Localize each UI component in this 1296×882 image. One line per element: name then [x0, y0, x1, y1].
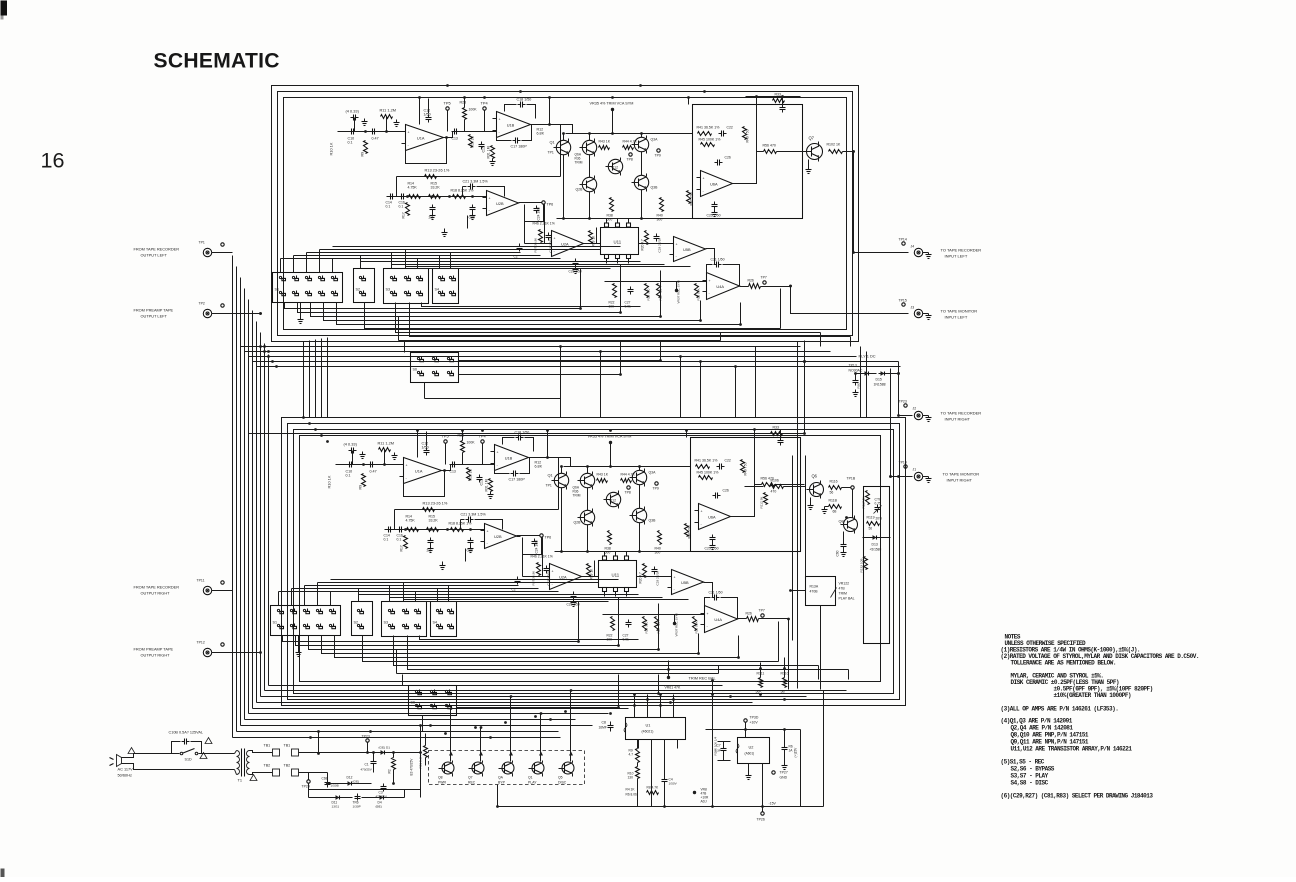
connector TB1 transformer side	[273, 749, 280, 756]
svg-text:(BE): (BE)	[376, 805, 382, 809]
transistor Q12 VCA center (R)	[606, 492, 620, 506]
svg-text:R17: R17	[400, 545, 404, 551]
op-amp U2A expander amp 2 (L)	[552, 231, 584, 257]
svg-text:R49 750: R49 750	[744, 462, 748, 475]
contacts of S4 (L)	[438, 276, 440, 278]
contacts of S2 (R)	[357, 609, 359, 611]
wire middle frame of left-channel block	[278, 92, 853, 336]
dashed enclosure of indicator lamps	[429, 751, 585, 785]
contacts of S1 top row (R)	[277, 609, 279, 611]
wire U6A output route (R)	[731, 485, 762, 517]
svg-text:R25 56K: R25 56K	[697, 287, 701, 300]
resistor R17 56K to ground (R)	[404, 536, 408, 549]
ground at jack 1	[923, 252, 929, 254]
svg-text:TP7: TP7	[759, 609, 765, 613]
svg-text:S6: S6	[411, 701, 415, 705]
svg-text:R41 36.5K 1%: R41 36.5K 1%	[697, 126, 721, 130]
svg-text:(A601): (A601)	[745, 752, 755, 756]
svg-text:33.2K: 33.2K	[429, 519, 439, 523]
junction dots on bus	[259, 312, 262, 315]
svg-text:R102 1K: R102 1K	[827, 143, 841, 147]
capacitor C7 3.3P	[723, 746, 725, 749]
svg-text:R26: R26	[746, 612, 752, 616]
svg-text:(+)15V: (+)15V	[794, 747, 798, 758]
capacitor C19 2.2/50 to ground (L)	[432, 205, 434, 208]
svg-text:TP2: TP2	[199, 302, 205, 306]
test point TP30 +10V	[744, 719, 747, 722]
svg-text:C7: C7	[717, 744, 721, 748]
capacitor C14 0.1 (L)	[388, 196, 391, 198]
svg-text:6B: 6B	[833, 510, 837, 514]
svg-text:U5B: U5B	[683, 247, 691, 252]
resistor R24 430 vertical (L)	[657, 284, 661, 298]
wire U1B output rail (L)	[531, 124, 561, 126]
switch bank S6 (L)	[411, 353, 459, 383]
svg-text:56: 56	[869, 527, 873, 531]
resistor R20 4.7 vertical (L)	[645, 231, 649, 245]
svg-text:TO TAPE RECORDER: TO TAPE RECORDER	[941, 411, 982, 416]
wire lamp Q7 feed	[480, 749, 482, 762]
svg-text:(GE) D1: (GE) D1	[379, 746, 391, 750]
svg-text:S1: S1	[273, 621, 277, 625]
capacitor C25 1/50 to ground (R)	[712, 535, 714, 538]
svg-text:(4)Q1,Q3 ARE P/N 142091: (4)Q1,Q3 ARE P/N 142091	[1001, 718, 1073, 725]
svg-text:FROM PREAMP TAPE: FROM PREAMP TAPE	[134, 308, 174, 313]
diode D16 in relay branch	[863, 373, 871, 375]
diode at lamp QA	[509, 752, 513, 756]
capacitor C2 1/50 lower (R)	[517, 577, 519, 580]
capacitor C23 3.3/50 vertical (L)	[548, 233, 550, 236]
transistor Q2B VCA (L)	[582, 177, 596, 191]
junction dot U1A output (R)	[443, 469, 446, 472]
input terminal FROM TAPE RECORDER OUTPUT RIGHT	[203, 586, 211, 594]
op-amp U4A output amp (L)	[707, 273, 740, 300]
switch bank S2 (R)	[352, 602, 373, 636]
transistor-array U11 (L)	[601, 228, 639, 255]
capacitor C22 33P (L)	[719, 133, 722, 135]
ground at Q7 emitter	[808, 160, 810, 167]
resistor R112 vertical near Q6	[764, 493, 768, 505]
svg-text:R28: R28	[458, 434, 465, 438]
resistor R9 1M vertical (R)	[362, 474, 366, 487]
op-amp U1A input amplifier (R)	[404, 458, 442, 484]
test point TP23	[366, 739, 369, 742]
power switch S1D	[172, 753, 180, 755]
capacitor C22 33P (R)	[717, 466, 720, 468]
svg-text:VR37 REC SYM: VR37 REC SYM	[675, 613, 679, 636]
svg-text:-15V: -15V	[769, 802, 777, 806]
svg-text:1/30P: 1/30P	[353, 805, 361, 809]
switch bank S3 (R)	[382, 602, 427, 637]
capacitor C23 3.3/50 vertical (R)	[546, 566, 548, 569]
svg-text:+: +	[489, 196, 491, 200]
svg-text:U2A: U2A	[559, 575, 567, 580]
junction dot lamp Q5	[570, 689, 573, 692]
svg-text:D15: D15	[876, 378, 882, 382]
wire U5B output drop (R)	[704, 583, 713, 598]
jack terminal TO TAPE MONITOR INPUT RIGHT	[914, 472, 922, 480]
svg-text:R13 23-26 1%: R13 23-26 1%	[425, 168, 450, 173]
svg-text:TP11: TP11	[197, 579, 205, 583]
wire VCA verticals (R)	[561, 467, 563, 474]
wire Q6 collector feed	[745, 486, 764, 488]
svg-text:RLY 1 DC: RLY 1 DC	[859, 354, 876, 359]
svg-text:U2: U2	[749, 745, 754, 750]
test point TP8 (R)	[627, 486, 630, 489]
svg-text:BYP: BYP	[498, 781, 506, 785]
svg-text:Q8: Q8	[438, 776, 443, 780]
wire outer frame of left-channel block	[272, 86, 859, 342]
wire relay branch down	[898, 362, 900, 412]
wire monitor feed left	[791, 287, 909, 314]
svg-text:U2B: U2B	[496, 201, 504, 206]
contacts of S3 (R)	[388, 609, 390, 611]
svg-text:SCHEMATIC: SCHEMATIC	[154, 50, 280, 73]
test point TP4 (R)	[481, 440, 484, 443]
diode D11 13G1 lower	[334, 797, 342, 799]
resistor R22 100 vertical (L)	[613, 284, 617, 298]
capacitor C10 0.47 (L)	[349, 131, 352, 133]
svg-text:R9: R9	[361, 152, 365, 157]
op-amp U5B line amp (L)	[674, 237, 706, 262]
capacitor C10 0.47 (R)	[347, 464, 350, 466]
resistor R42 200 vertical (R)	[685, 524, 689, 537]
capacitor C29 22/16 vertical (R)	[654, 567, 656, 570]
trim VR37 REC CAL SYM (R)	[673, 622, 676, 625]
svg-text:C24 1/50: C24 1/50	[535, 540, 539, 553]
wire -15V rail bottom	[498, 806, 824, 808]
resistor R38 600 (R)	[608, 531, 612, 545]
resistor R43 1K base (R)	[597, 479, 608, 483]
resistor R40 300 (L)	[660, 198, 664, 212]
wire U4A output (L)	[740, 286, 749, 288]
wire switch matrix horizontal links (L)	[281, 258, 561, 260]
svg-text:Q3B: Q3B	[649, 519, 657, 523]
svg-text:FROM TAPE RECORDER: FROM TAPE RECORDER	[134, 585, 180, 590]
resistor R16 vertical divider (R)	[467, 468, 471, 481]
capacitor C2 1/50 lower (L)	[519, 244, 521, 247]
svg-text:0.1: 0.1	[348, 141, 353, 145]
wire expander row1 rail (L)	[387, 196, 487, 198]
svg-text:300: 300	[655, 551, 661, 555]
capacitor C28 1/50 below (R)	[573, 592, 575, 595]
resistor R18 8.25K 1% (R)	[451, 528, 464, 532]
wire right riser x823	[823, 691, 825, 807]
svg-text:C17 180P: C17 180P	[511, 145, 528, 149]
svg-text:S2,S6 - BYPASS: S2,S6 - BYPASS	[1011, 766, 1055, 773]
pins of U1 top	[634, 706, 636, 718]
transistor Q3B VCA (L)	[634, 175, 648, 189]
svg-text:R49 750: R49 750	[746, 129, 750, 142]
svg-text:U5B: U5B	[681, 580, 689, 585]
capacitor C4 1/50V	[664, 777, 666, 780]
ground at C9 (R)	[362, 452, 364, 455]
node small TP circle at jack 1	[902, 242, 905, 245]
junction dot lamp Q1	[540, 712, 543, 715]
transistor Q3 VCA (R)	[632, 470, 646, 484]
resistor R22 100 vertical (R)	[611, 617, 615, 631]
svg-text:OUTPUT LEFT: OUTPUT LEFT	[141, 253, 168, 258]
transformer T1 core	[241, 749, 243, 777]
resistor R41 36.5K 1% (R)	[696, 465, 710, 469]
svg-text:C29 22/16: C29 22/16	[656, 571, 660, 586]
switch bank S3 (L)	[384, 269, 429, 304]
svg-text:TB2: TB2	[264, 764, 271, 768]
svg-text:0.1: 0.1	[384, 538, 389, 542]
wire row3 rail (L)	[605, 281, 707, 283]
warning triangle at T1	[250, 775, 257, 781]
transistor Q6 output follower right	[810, 483, 824, 497]
wire TB1 rail	[299, 752, 421, 754]
jack terminal TO TAPE RECORDER INPUT RIGHT	[914, 411, 922, 419]
wire row2 feed from TP6 (R)	[523, 538, 542, 577]
test point TP9 (R)	[655, 482, 658, 485]
wire row2 feed from TP6 (L)	[525, 205, 544, 244]
svg-text:C17 180P: C17 180P	[509, 478, 526, 482]
capacitor C16 0.1 (R)	[397, 529, 400, 531]
resistor R19 1K vertical (R)	[587, 564, 591, 577]
diode at lamp Q7	[479, 752, 483, 756]
svg-text:Q2B: Q2B	[576, 188, 584, 192]
wire VCA verticals (L)	[563, 134, 565, 141]
capacitor C24 1/50 at TP6 (R)	[534, 539, 536, 542]
wire resistor drops to bus	[760, 669, 762, 678]
svg-text:+: +	[487, 529, 489, 533]
switch bank S2 (L)	[354, 269, 375, 303]
wire feed rail y433 to relay riser	[249, 433, 805, 435]
transistor Q2B VCA (R)	[580, 510, 594, 524]
diode D1 13G1	[379, 752, 387, 754]
svg-text:R46 2.21K 1%: R46 2.21K 1%	[531, 555, 553, 559]
svg-text:VR122: VR122	[839, 582, 850, 586]
svg-text:+: +	[674, 575, 676, 579]
wire rectifier bottom rail	[308, 784, 310, 790]
svg-text:Q9,Q11 ARE NPN,P/N 147151: Q9,Q11 ARE NPN,P/N 147151	[1011, 739, 1089, 746]
capacitor C17 180P feedback (R)	[495, 463, 510, 474]
wire TB2 rail	[299, 772, 309, 774]
svg-text:C29 22/16: C29 22/16	[658, 238, 662, 253]
op-amp U1A input amplifier (L)	[406, 125, 444, 151]
ground at jack 3	[923, 415, 929, 417]
svg-text:R9: R9	[359, 485, 363, 490]
indicator transistor Q5 DISC	[562, 762, 574, 774]
resistor R47 30.9K vertical (L)	[539, 230, 543, 243]
svg-text:TP1: TP1	[199, 241, 205, 245]
svg-text:R11 1.2M: R11 1.2M	[378, 441, 395, 446]
resistor R28 100K vertical (L)	[463, 108, 467, 120]
pins of U11 bottom (L)	[605, 255, 609, 259]
svg-text:TB1: TB1	[264, 744, 271, 748]
svg-text:C15: C15	[480, 479, 484, 485]
capacitor C9 input bypass (R)	[349, 450, 352, 452]
wire mains leads	[122, 754, 172, 758]
svg-text:TP1: TP1	[546, 484, 552, 488]
wire trim feeds from bus to R111 R110	[668, 661, 670, 670]
ground below C20 (L)	[472, 213, 474, 216]
svg-text:470: 470	[771, 490, 777, 494]
wire secondary to TB1	[250, 751, 273, 753]
wire trim riser	[712, 681, 714, 807]
svg-text:TRIM: TRIM	[839, 592, 848, 596]
svg-text:R112 3K: R112 3K	[760, 496, 764, 509]
capacitor C11 0.47 (R)	[368, 464, 371, 466]
svg-text:+: +	[499, 118, 501, 122]
fuse F1	[172, 742, 181, 754]
svg-text:NO30AC: NO30AC	[849, 369, 863, 373]
capacitor C26 coupling (R)	[713, 495, 716, 497]
svg-text:R23 300: R23 300	[645, 621, 649, 633]
svg-text:20%: 20%	[876, 517, 883, 521]
wire R13 feedback rail (L)	[397, 176, 561, 178]
wire control box around U6A (L)	[693, 105, 803, 219]
resistor R43 1K base (L)	[599, 146, 610, 150]
capacitor C8 16MF	[610, 722, 612, 726]
wire into jack 4	[891, 476, 913, 478]
resistor R23 300 vertical (R)	[643, 617, 647, 631]
resistor R15 33.2K 1% (L)	[429, 195, 441, 199]
svg-text:(GE): (GE)	[353, 780, 360, 784]
junction dots VCA rails (L)	[562, 132, 565, 135]
test point TP6 (L)	[542, 201, 545, 204]
indicator transistor Q8 PWR	[442, 762, 454, 774]
resistor R116 at Q6 output	[829, 486, 842, 490]
svg-text:TB1: TB1	[284, 744, 291, 748]
svg-text:+: +	[406, 464, 408, 468]
svg-text:+: +	[703, 177, 705, 181]
junction dot lamp Q7	[480, 726, 483, 729]
svg-text:U1B: U1B	[505, 456, 513, 461]
diode D12 (GE)	[346, 783, 354, 785]
mains plug	[117, 755, 122, 767]
junction dot at jack4 riser	[889, 475, 892, 478]
warning triangle at fuse	[205, 738, 212, 744]
ground below C56	[784, 763, 786, 766]
svg-text:C26: C26	[725, 156, 731, 160]
resistor R20 4.7 vertical (R)	[643, 564, 647, 578]
wire lamp Q1 feed	[540, 749, 542, 762]
capacitor C25 1/50 to ground (L)	[714, 202, 716, 205]
switch bank S6 (R)	[409, 686, 457, 716]
capacitor C13 coupling (R)	[450, 464, 453, 466]
trim VR37 REC CAL SYM (L)	[675, 289, 678, 292]
svg-text:0.1: 0.1	[346, 474, 351, 478]
wire U4A output (R)	[738, 618, 747, 620]
svg-text:Q7: Q7	[809, 136, 815, 141]
svg-text:R45 100K 1%: R45 100K 1%	[697, 471, 720, 475]
svg-text:47B: 47B	[839, 587, 846, 591]
svg-text:C1: C1	[365, 763, 369, 767]
svg-text:R46 2.21K 1%: R46 2.21K 1%	[533, 222, 555, 226]
wire from play-bal box down	[820, 606, 822, 641]
svg-text:U1A: U1A	[415, 469, 423, 474]
wire VCA top rail (L)	[566, 133, 693, 135]
svg-text:1/50: 1/50	[424, 113, 431, 117]
svg-text:R56 470: R56 470	[763, 144, 776, 148]
scan speck bottom left	[1, 869, 5, 878]
capacitor C21 3.3M 1.5% bridge (L)	[463, 186, 467, 188]
resistor R9 1M vertical (L)	[364, 141, 368, 154]
junction dot U1A output (L)	[445, 136, 448, 139]
diode D14 (BE)	[378, 797, 386, 799]
junction dots at S6 (L)	[659, 359, 662, 362]
svg-text:TO TAPE MONITOR: TO TAPE MONITOR	[943, 472, 980, 477]
svg-text:R10 1K: R10 1K	[327, 475, 332, 488]
capacitor C29 22/16 vertical (L)	[656, 234, 658, 237]
svg-text:C21 3.3M 1.5%: C21 3.3M 1.5%	[463, 180, 489, 184]
wire bottom horizontal bus bundle	[233, 737, 561, 739]
ground large center (R)	[442, 562, 444, 566]
input terminal FROM PREAMP TAPE OUTPUT LEFT	[203, 309, 211, 317]
svg-text:+: +	[497, 451, 499, 455]
svg-text:3.3P: 3.3P	[715, 749, 721, 753]
ground below C25 (L)	[714, 210, 716, 213]
wire regulator mid verticals	[637, 740, 639, 749]
svg-text:4.7: 4.7	[629, 753, 634, 757]
svg-text:TP1: TP1	[548, 151, 554, 155]
svg-text:4.75K: 4.75K	[408, 186, 418, 190]
resistor R42 200 vertical (L)	[687, 191, 691, 204]
wire 4th frame of right-channel block	[300, 436, 881, 682]
svg-text:S2: S2	[354, 621, 358, 625]
capacitor C40 relay snubber	[855, 378, 857, 381]
resistor R13 23-26 1% (L)	[425, 175, 437, 179]
svg-text:C18 1/50: C18 1/50	[517, 98, 532, 102]
svg-text:TO TAPE RECORDER: TO TAPE RECORDER	[941, 248, 982, 253]
svg-text:600: 600	[605, 551, 611, 555]
page corner registration mark	[1, 1, 8, 16]
resistor R117 vertical	[866, 491, 870, 505]
svg-text:VR37 REC SYM: VR37 REC SYM	[677, 280, 681, 303]
svg-text:470/25V: 470/25V	[376, 795, 387, 799]
wire inner frame of left-channel block	[284, 98, 847, 330]
wire supply vertical x420	[420, 753, 422, 798]
svg-text:R20 4.7: R20 4.7	[639, 572, 643, 584]
wire relay vertical riser left	[804, 341, 806, 434]
svg-text:(5)S1,S5 - REC: (5)S1,S5 - REC	[1001, 759, 1045, 766]
svg-text:Q2B: Q2B	[574, 521, 582, 525]
svg-text:S4,S8 - DISC: S4,S8 - DISC	[1011, 780, 1049, 787]
svg-text:PWR: PWR	[438, 781, 447, 785]
node small TP circle at jack 2	[902, 303, 905, 306]
resistor R17 56K to ground (L)	[406, 203, 410, 216]
connector TB1 board side	[292, 749, 299, 756]
wire R56 to output transistor (L)	[777, 151, 807, 153]
svg-text:PLAY: PLAY	[528, 781, 537, 785]
resistor R26 56 output (L)	[749, 284, 761, 289]
capacitor C31 1/50 feedback of U4A (L)	[707, 265, 713, 273]
svg-text:R26: R26	[748, 279, 754, 283]
trim VR8 +10R ADJ	[693, 791, 696, 794]
resistor R18 8.25K 1% (L)	[453, 195, 466, 199]
junction dots row1 (L)	[406, 195, 409, 198]
resistor R24 430 vertical (R)	[655, 617, 659, 631]
wire power feed drop x420	[420, 726, 422, 753]
wire U1B output riser to top rail (R)	[547, 432, 549, 458]
resistor R8 4.7K	[647, 791, 659, 795]
capacitor C12 1/50 in U1A feedback (R)	[426, 448, 428, 451]
svg-text:TP7: TP7	[761, 276, 767, 280]
wire VCA bottom rail (L)	[557, 218, 693, 220]
svg-text:TP6: TP6	[547, 203, 554, 207]
resistor R56 470 (L)	[764, 150, 777, 154]
pins of U11 bottom (R)	[603, 588, 607, 592]
wire U1A feedback loop bottom (L)	[406, 138, 447, 164]
svg-text:R13A: R13A	[810, 585, 819, 589]
ground below S1 (R)	[298, 636, 300, 650]
wire risers from lower links to row3 (L)	[580, 269, 582, 309]
resistor R49 750 vertical (L)	[743, 127, 747, 140]
resistor R25 vertical (L)	[695, 284, 699, 298]
